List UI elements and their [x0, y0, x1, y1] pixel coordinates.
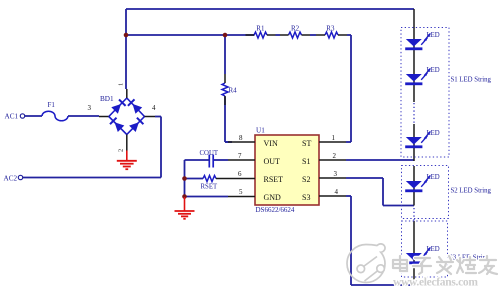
svg-text:www.elecfans.com: www.elecfans.com	[393, 277, 478, 289]
svg-text:R3: R3	[326, 25, 335, 33]
bridge diode top-right	[128, 99, 142, 113]
U1 pin 3 S2	[302, 170, 346, 184]
wire LED string3	[413, 221, 415, 285]
U1 pin 7 OUT	[228, 152, 280, 166]
svg-text:LED: LED	[427, 246, 440, 253]
svg-text:S1: S1	[302, 157, 310, 166]
S2 string box	[402, 166, 449, 219]
U1 pin 4 S3	[302, 188, 346, 202]
wire LED string1 upper	[413, 9, 415, 102]
wire LED string2 dots	[413, 208, 415, 221]
terminal AC2	[18, 175, 22, 179]
svg-text:VIN: VIN	[264, 139, 278, 148]
wire second rail	[126, 34, 255, 36]
LED D3	[405, 130, 440, 148]
bridge pin 1 stub	[118, 83, 127, 98]
svg-text:LED: LED	[427, 174, 440, 181]
bridge diode bottom-right	[129, 118, 143, 132]
svg-text:GND: GND	[264, 193, 282, 202]
svg-text:U1: U1	[256, 127, 265, 135]
wire top rail	[126, 9, 414, 35]
wire LED string1 dots	[413, 103, 415, 124]
wire AC2 riser	[160, 117, 162, 178]
resistor R3	[316, 25, 347, 39]
svg-text:BD1: BD1	[100, 95, 114, 103]
junction dot B	[223, 33, 228, 38]
U1 pin 5 GND	[228, 188, 281, 202]
resistor R2	[280, 25, 310, 39]
wire S3 tap	[346, 196, 414, 285]
wire R1-R2	[276, 34, 281, 36]
wire S1 tap	[346, 159, 415, 161]
terminal AC1	[20, 114, 24, 118]
wire AC2	[23, 177, 161, 179]
svg-text:DS6622/6624: DS6622/6624	[256, 206, 295, 214]
wire LED string2	[413, 166, 415, 206]
label AC1	[5, 113, 19, 121]
svg-text:5: 5	[239, 188, 243, 196]
resistor R4	[222, 74, 237, 105]
ground (IC)	[175, 197, 195, 219]
U1 pin 6 RSET	[228, 170, 283, 184]
svg-text:LED: LED	[427, 130, 440, 137]
svg-text:3: 3	[334, 170, 338, 178]
svg-text:R2: R2	[291, 25, 300, 33]
U1 pin 8 VIN	[228, 134, 278, 148]
ground (bridge)	[117, 151, 137, 170]
op-amp U1 body	[255, 135, 319, 205]
svg-text:7: 7	[238, 152, 242, 160]
label DS6622/6624	[256, 206, 295, 214]
label AC2	[4, 175, 18, 183]
LED D1	[405, 32, 440, 50]
bridge pin 2 stub	[118, 135, 127, 153]
junction dot C	[182, 176, 187, 181]
wire S2 tap	[346, 178, 414, 206]
svg-text:AC2: AC2	[4, 175, 18, 183]
bridge BD1 body	[100, 95, 145, 135]
bridge pin 4 wire	[145, 104, 162, 117]
svg-text:S2: S2	[302, 175, 310, 184]
svg-text:6: 6	[238, 170, 242, 178]
svg-text:RSET: RSET	[201, 184, 218, 191]
label 3 bridge pin	[88, 104, 92, 112]
wire VIN	[225, 141, 228, 143]
S1 string box	[401, 28, 449, 158]
svg-text:2: 2	[118, 149, 125, 152]
svg-text:F1: F1	[48, 101, 56, 109]
wire bridge output vertical	[125, 35, 127, 89]
svg-text:1: 1	[118, 83, 125, 86]
svg-text:3: 3	[88, 104, 92, 112]
wire GND net	[185, 196, 229, 198]
fuse F1	[42, 101, 68, 121]
svg-text:S1 LED String: S1 LED String	[451, 77, 492, 84]
label U1	[256, 127, 265, 135]
svg-text:2: 2	[333, 152, 337, 160]
svg-text:R1: R1	[256, 25, 265, 33]
LED D2	[405, 67, 440, 85]
wire R2-R3	[310, 34, 316, 36]
watermark elecfans	[347, 244, 497, 289]
svg-text:AC1: AC1	[5, 113, 19, 121]
svg-text:LED: LED	[427, 67, 440, 74]
wire fuse to bridge	[68, 115, 109, 118]
junction dot A	[124, 33, 129, 38]
LED D5	[405, 246, 440, 264]
svg-text:4: 4	[335, 188, 339, 196]
svg-text:S3: S3	[302, 193, 310, 202]
LED D4	[405, 174, 440, 192]
wire OUT stub	[214, 159, 229, 161]
svg-text:8: 8	[239, 134, 243, 142]
wire LED string1 lower	[413, 124, 415, 161]
wire R3 to ST pin	[346, 35, 351, 142]
svg-text:R4: R4	[229, 87, 238, 95]
svg-text:1: 1	[332, 134, 336, 142]
label S1 LED String	[451, 77, 492, 84]
svg-text:OUT: OUT	[264, 157, 281, 166]
resistor R1	[246, 25, 276, 39]
wire COUT left	[185, 160, 210, 197]
svg-text:ST: ST	[302, 139, 311, 148]
label S2 LED String	[451, 188, 492, 195]
svg-text:LED: LED	[427, 32, 440, 39]
svg-text:COUT: COUT	[200, 150, 219, 157]
bridge diode top-left	[111, 100, 125, 114]
S3 string box	[402, 221, 448, 277]
resistor RSET	[185, 176, 229, 191]
bridge diode bottom-left	[110, 118, 124, 132]
svg-text:RSET: RSET	[264, 175, 284, 184]
U1 pin 1 ST	[302, 134, 346, 148]
capacitor COUT	[200, 150, 219, 168]
svg-text:4: 4	[152, 104, 156, 112]
U1 pin 2 S1	[302, 152, 346, 166]
wire AC1 to fuse	[25, 115, 42, 117]
wire R4 branch	[225, 35, 232, 142]
junction dot D	[182, 194, 187, 199]
svg-text:S2 LED String: S2 LED String	[451, 188, 492, 195]
label S3 LED String	[449, 255, 490, 262]
